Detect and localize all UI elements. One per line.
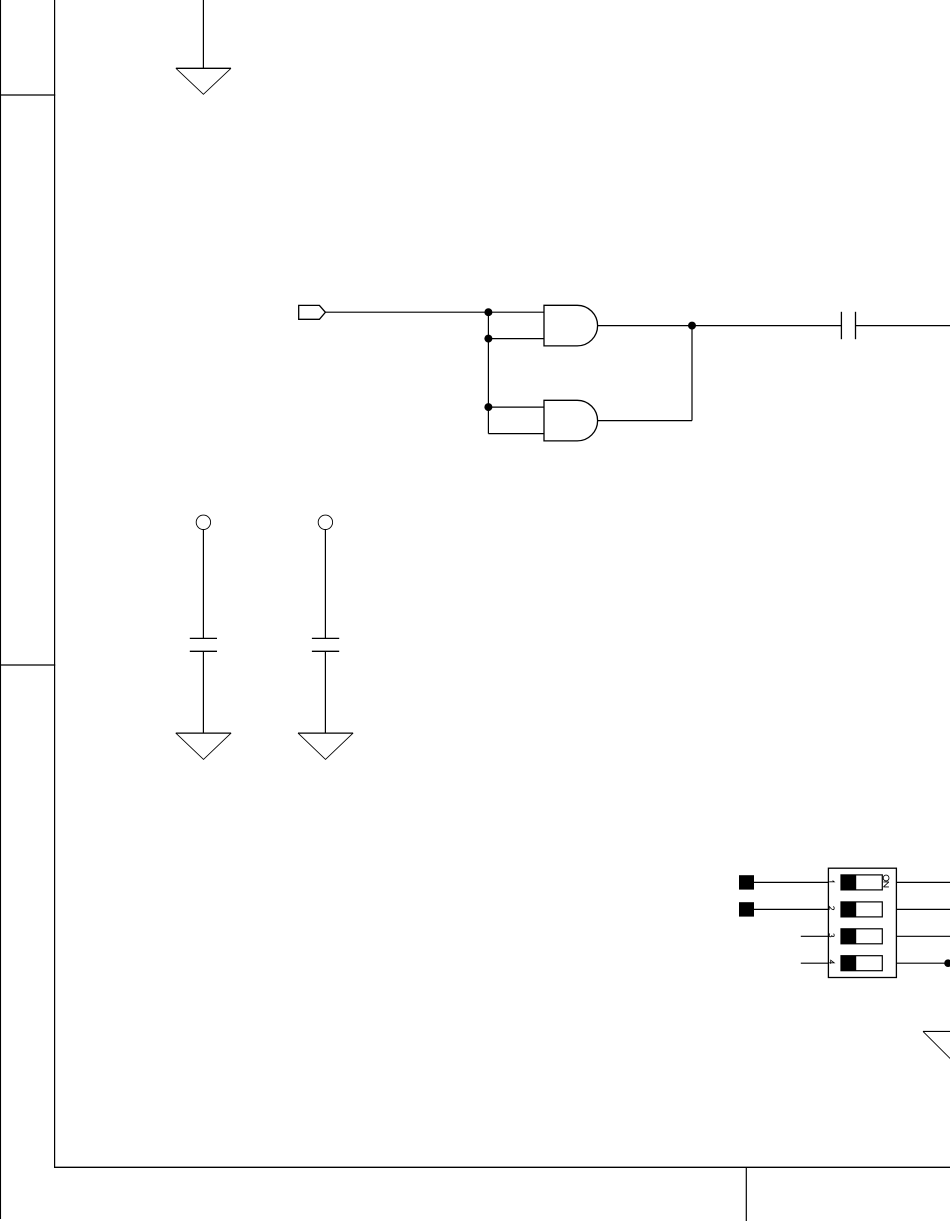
capacitor C2 <box>190 638 217 651</box>
border zone tick row divider upper <box>0 94 55 96</box>
wire pad1 to SW1 pin 1 <box>754 881 828 883</box>
wire from top edge to ground <box>202 0 204 68</box>
DIP switch SW1 body <box>828 868 896 977</box>
border bottom column divider tick <box>745 1167 747 1221</box>
wire stub to SW1 pin 4 <box>801 962 829 964</box>
wire U1 output to capacitor C1 <box>598 325 842 327</box>
wire vertical joining outputs <box>691 326 693 421</box>
wire to U2 lower input <box>488 433 544 435</box>
SW1 rocker 3 <box>841 929 882 944</box>
and-gate U1 <box>544 305 598 346</box>
junction node on tag wire <box>484 308 492 316</box>
SW1 pin number 4 <box>829 960 834 964</box>
sheet border outer left edge <box>0 0 2 1219</box>
wire from tag to AND gate U1 top input <box>325 311 544 313</box>
wire C3 to ground <box>324 651 326 733</box>
wire SW1 pin 7 to right edge <box>896 908 950 910</box>
sheet border inner left line <box>54 0 56 1167</box>
terminal square pad 1 <box>739 875 754 889</box>
junction node at output join <box>688 322 696 330</box>
net tag connector flag <box>299 305 326 319</box>
wire SW1 pin 8 to right edge <box>896 881 950 883</box>
wire to U1 lower input <box>488 338 544 340</box>
wire C1 to right sheet edge <box>856 325 950 327</box>
connector pin circle P1 <box>196 515 210 529</box>
SW1 pin number 1 <box>829 881 834 882</box>
wire pad2 to SW1 pin 2 <box>754 908 828 910</box>
SW1 pin number 3 <box>829 934 834 937</box>
wire stub to SW1 pin 3 <box>801 935 829 937</box>
and-gate U2 <box>544 400 598 441</box>
wire vertical input bus <box>487 312 489 433</box>
wire to U2 upper input <box>488 406 544 408</box>
SW1 label ON rotated <box>883 875 889 887</box>
junction node at U1 lower input <box>484 335 492 343</box>
SW1 rocker 1 <box>841 875 882 890</box>
SW1 rocker 4 <box>841 956 882 971</box>
wire SW1 pin 5 to right edge <box>896 962 950 964</box>
junction node on pin 5 wire <box>944 959 950 967</box>
connector pin circle P2 <box>318 515 332 529</box>
ground symbol under C2 <box>176 733 231 759</box>
capacitor C1 <box>841 312 855 339</box>
wire P2 to capacitor C3 <box>324 530 326 639</box>
wire P1 to capacitor C2 <box>202 530 204 639</box>
sheet border bottom line <box>54 1166 950 1168</box>
ground symbol under C3 <box>298 733 353 759</box>
border zone tick row divider lower <box>0 664 55 666</box>
SW1 pin number 2 <box>829 906 834 910</box>
SW1 rocker 2 <box>841 902 882 917</box>
terminal square pad 2 <box>739 902 754 916</box>
capacitor C3 <box>312 638 339 651</box>
wire U2 output <box>598 420 692 422</box>
ground symbol clipped at right edge <box>923 1031 950 1060</box>
junction node at U2 upper input <box>484 403 492 411</box>
ground symbol top <box>176 68 231 94</box>
wire SW1 pin 6 to right edge <box>896 935 950 937</box>
wire C2 to ground <box>202 651 204 733</box>
